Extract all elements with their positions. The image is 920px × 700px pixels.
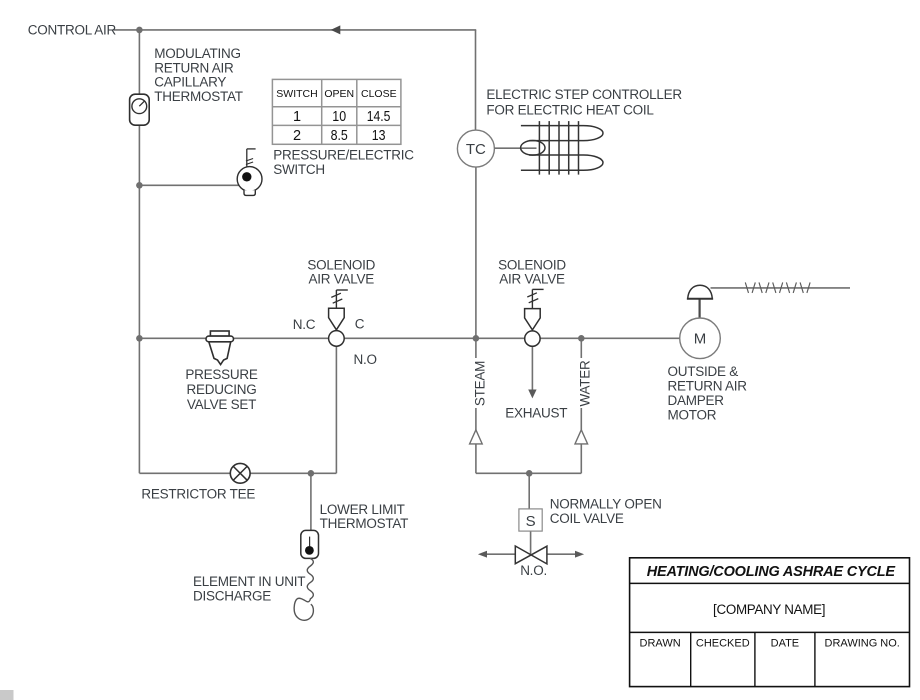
svg-text:M: M <box>694 331 707 348</box>
svg-text:C: C <box>355 317 365 332</box>
svg-text:MODULATING: MODULATING <box>154 46 241 61</box>
svg-text:RESTRICTOR TEE: RESTRICTOR TEE <box>141 486 255 501</box>
svg-text:RETURN AIR: RETURN AIR <box>154 60 234 75</box>
svg-text:14.5: 14.5 <box>367 109 391 125</box>
svg-text:2: 2 <box>293 128 301 144</box>
svg-text:N.O.: N.O. <box>520 563 547 578</box>
svg-text:[COMPANY NAME]: [COMPANY NAME] <box>713 602 825 617</box>
svg-text:HEATING/COOLING ASHRAE CYCLE: HEATING/COOLING ASHRAE CYCLE <box>647 564 897 580</box>
svg-text:PRESSURE: PRESSURE <box>185 367 258 382</box>
svg-text:AIR VALVE: AIR VALVE <box>499 271 565 286</box>
svg-text:REDUCING: REDUCING <box>186 382 256 397</box>
svg-text:10: 10 <box>332 109 346 125</box>
svg-text:SOLENOID: SOLENOID <box>498 257 566 272</box>
svg-text:ELECTRIC STEP CONTROLLER: ELECTRIC STEP CONTROLLER <box>486 87 682 102</box>
svg-text:TC: TC <box>466 141 486 158</box>
svg-text:STEAM: STEAM <box>473 361 488 406</box>
svg-text:N.C: N.C <box>293 317 316 332</box>
svg-text:RETURN AIR: RETURN AIR <box>668 379 748 394</box>
svg-text:N.O: N.O <box>354 352 377 367</box>
svg-text:OUTSIDE &: OUTSIDE & <box>668 364 739 379</box>
svg-text:FOR ELECTRIC HEAT COIL: FOR ELECTRIC HEAT COIL <box>486 102 654 117</box>
svg-text:DRAWN: DRAWN <box>640 638 681 650</box>
svg-text:VALVE SET: VALVE SET <box>187 397 256 412</box>
svg-text:AIR VALVE: AIR VALVE <box>309 271 375 286</box>
svg-text:EXHAUST: EXHAUST <box>505 405 567 420</box>
svg-text:1: 1 <box>293 109 301 125</box>
svg-text:NORMALLY OPEN: NORMALLY OPEN <box>550 496 662 511</box>
svg-text:13: 13 <box>372 128 386 144</box>
svg-text:SOLENOID: SOLENOID <box>307 257 375 272</box>
svg-text:DRAWING NO.: DRAWING NO. <box>825 638 900 650</box>
svg-text:ELEMENT IN UNIT: ELEMENT IN UNIT <box>193 574 305 589</box>
svg-text:PRESSURE/ELECTRIC: PRESSURE/ELECTRIC <box>273 148 414 163</box>
svg-text:THERMOSTAT: THERMOSTAT <box>320 516 409 531</box>
svg-text:8.5: 8.5 <box>331 128 348 144</box>
svg-text:SWITCH: SWITCH <box>276 88 317 100</box>
svg-text:CONTROL AIR: CONTROL AIR <box>28 23 117 38</box>
svg-text:MOTOR: MOTOR <box>668 408 717 423</box>
svg-text:THERMOSTAT: THERMOSTAT <box>154 89 243 104</box>
svg-text:COIL VALVE: COIL VALVE <box>550 511 624 526</box>
svg-text:DAMPER: DAMPER <box>668 393 725 408</box>
svg-text:SWITCH: SWITCH <box>273 162 325 177</box>
svg-text:CAPILLARY: CAPILLARY <box>154 75 226 90</box>
svg-text:CHECKED: CHECKED <box>696 638 750 650</box>
svg-text:LOWER LIMIT: LOWER LIMIT <box>320 502 405 517</box>
svg-text:OPEN: OPEN <box>324 88 354 100</box>
svg-text:DISCHARGE: DISCHARGE <box>193 589 271 604</box>
svg-text:CLOSE: CLOSE <box>361 88 397 100</box>
svg-text:WATER: WATER <box>577 360 592 406</box>
svg-text:S: S <box>526 513 536 530</box>
svg-text:DATE: DATE <box>771 638 800 650</box>
